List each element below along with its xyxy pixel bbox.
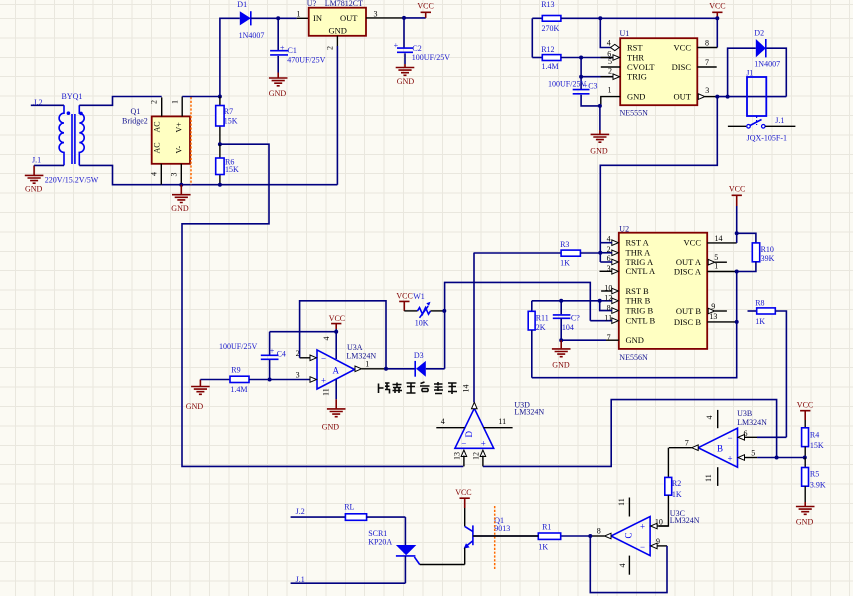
- ground (U1): [590, 106, 609, 156]
- svg-text:VCC: VCC: [729, 185, 745, 194]
- U3D pin 4: [436, 417, 464, 428]
- regulator pin 1: [297, 10, 301, 19]
- svg-text:R12: R12: [541, 45, 554, 54]
- svg-text:GND: GND: [796, 517, 814, 526]
- svg-text:VCC: VCC: [797, 401, 813, 410]
- net label J.1 (load return): [296, 575, 305, 584]
- svg-text:−: −: [728, 433, 733, 443]
- timer U1 NE555N: [620, 38, 697, 105]
- svg-text:LM324N: LM324N: [670, 516, 700, 525]
- svg-text:AC: AC: [153, 142, 162, 153]
- diode D1: [237, 0, 264, 40]
- op-amp U3A designator: [346, 343, 376, 361]
- U3A pin 11 / ground: [322, 380, 346, 432]
- svg-text:D3: D3: [414, 351, 424, 360]
- svg-text:OUT B: OUT B: [676, 306, 701, 316]
- svg-text:GND: GND: [329, 26, 347, 36]
- transistor Q1 designator: [494, 516, 510, 533]
- svg-text:6: 6: [607, 254, 611, 263]
- U3A pin 1 output: [355, 360, 386, 372]
- svg-text:+: +: [481, 439, 486, 449]
- junction W1 wiper net: [442, 309, 446, 313]
- junction R12 / THR: [579, 56, 583, 60]
- svg-text:RST B: RST B: [626, 286, 650, 296]
- svg-text:D2: D2: [754, 29, 764, 38]
- ground (R9): [186, 380, 210, 411]
- junction C1 top: [276, 16, 280, 20]
- wire DISC net down: [532, 272, 737, 378]
- power VCC (R4): [797, 401, 813, 420]
- svg-text:VCC: VCC: [417, 1, 433, 10]
- op-amp U3B designator: [737, 409, 767, 427]
- value label 220V/15.2V/5W: [45, 176, 99, 185]
- U2 pin 3 CNTL A: [600, 264, 619, 274]
- svg-text:5: 5: [751, 448, 755, 457]
- svg-text:C2: C2: [412, 44, 421, 53]
- svg-text:100UF/25V: 100UF/25V: [219, 342, 257, 351]
- U2 pin 13 DISC B: [707, 312, 737, 322]
- svg-text:V+: V+: [175, 122, 184, 133]
- svg-text:−: −: [640, 542, 645, 552]
- svg-text:TRIG: TRIG: [627, 71, 647, 81]
- junction R6 bottom: [218, 183, 222, 187]
- svg-text:4: 4: [607, 39, 611, 48]
- svg-text:VCC: VCC: [684, 238, 702, 248]
- svg-text:1: 1: [297, 10, 301, 19]
- value label 100UF/25V (C4): [219, 342, 257, 351]
- svg-text:11: 11: [498, 417, 506, 426]
- svg-text:14: 14: [461, 385, 470, 393]
- svg-text:R1: R1: [542, 523, 551, 532]
- svg-text:1K: 1K: [538, 543, 548, 552]
- svg-text:9013: 9013: [494, 524, 510, 533]
- U2 pin 6 TRIG A: [600, 254, 618, 265]
- U3B pin 11: [704, 467, 718, 486]
- U2 pin 9 OUT B: [708, 302, 727, 314]
- U3C pin 4: [618, 556, 630, 575]
- junction C7 bottom / GND: [559, 338, 563, 342]
- transformer BYQ1: [59, 105, 84, 165]
- junction U3A output node: [384, 367, 388, 371]
- U3D pin 12: [472, 450, 486, 466]
- svg-text:TRIG B: TRIG B: [626, 306, 654, 316]
- svg-text:VCC: VCC: [329, 314, 345, 323]
- svg-text:D1: D1: [237, 0, 247, 9]
- U2 pin 2 THR A: [600, 245, 618, 256]
- svg-text:LM324N: LM324N: [346, 351, 376, 360]
- svg-text:VCC: VCC: [396, 292, 412, 301]
- relay actuator dashed link: [756, 116, 758, 125]
- svg-text:GND: GND: [590, 147, 608, 156]
- resistor R7: [216, 97, 238, 145]
- U3C pin 10: [651, 518, 669, 529]
- svg-text:R3: R3: [560, 240, 569, 249]
- U1 pin 5 CVOLT: [601, 57, 620, 67]
- junction C7 top: [559, 299, 563, 303]
- svg-text:JQX-105F-1: JQX-105F-1: [747, 134, 787, 143]
- svg-text:+: +: [640, 522, 645, 532]
- svg-text:1K: 1K: [755, 317, 765, 326]
- op-amp U3C designator: [670, 509, 700, 525]
- junction U3C output: [588, 534, 592, 538]
- relay coil J1: [747, 77, 766, 116]
- svg-text:CVOLT: CVOLT: [627, 62, 655, 72]
- bridge rectifier Q1 Bridge2: [152, 116, 190, 163]
- junction C4 bottom / pin3: [268, 378, 272, 382]
- regulator pin 2 (GND): [326, 36, 338, 185]
- svg-text:C4: C4: [277, 350, 286, 359]
- svg-text:R7: R7: [224, 107, 233, 116]
- U2 pin 11 CNTL B: [590, 314, 618, 324]
- U2 pin 14 VCC: [707, 233, 737, 243]
- svg-text:3: 3: [705, 86, 709, 95]
- resistor R12: [532, 45, 613, 71]
- junction U1 gnd / C3: [598, 104, 602, 108]
- U3A pin 4 label: [322, 337, 331, 341]
- svg-text:4: 4: [618, 564, 627, 568]
- wire U3A feedback loop: [300, 301, 386, 369]
- resistor R13: [532, 0, 717, 33]
- svg-text:−: −: [321, 354, 326, 364]
- wire D2 branch: [728, 48, 787, 96]
- wire bridge V- to regulator gnd: [161, 184, 337, 186]
- svg-text:8: 8: [705, 39, 709, 48]
- ground (U2 / C7): [552, 340, 571, 369]
- svg-text:+: +: [394, 41, 399, 50]
- svg-text:+: +: [270, 346, 275, 355]
- diode D2: [754, 29, 780, 69]
- wire J.1 to SCR cathode: [291, 582, 406, 584]
- svg-text:4: 4: [705, 416, 714, 420]
- svg-text:DISC A: DISC A: [674, 266, 702, 276]
- U3C pin 9: [651, 537, 667, 549]
- U1 pin 3 OUT: [698, 86, 717, 99]
- svg-text:12: 12: [604, 293, 612, 302]
- U3C pin 8 output: [590, 526, 611, 538]
- wire RST drop: [600, 18, 611, 47]
- resistor R11: [528, 301, 549, 378]
- junction DISC A / R10: [735, 270, 739, 274]
- U3B pin 6: [738, 429, 786, 440]
- svg-text:VCC: VCC: [674, 42, 692, 52]
- svg-text:2: 2: [326, 46, 335, 50]
- bridge pin 2: [150, 97, 162, 116]
- annotation Chinese text: [379, 382, 458, 394]
- U3C pin 11: [617, 498, 630, 517]
- regulator U? designator: [307, 0, 363, 8]
- wire OUT to relay: [717, 96, 786, 98]
- svg-text:C1: C1: [288, 46, 297, 55]
- svg-text:OUT: OUT: [340, 13, 358, 23]
- capacitor C7: [553, 301, 580, 340]
- svg-text:470UF/25V: 470UF/25V: [287, 55, 325, 64]
- svg-text:GND: GND: [397, 77, 415, 86]
- svg-text:2K: 2K: [536, 323, 546, 332]
- svg-text:GND: GND: [627, 92, 645, 102]
- capacitor C4: [261, 332, 286, 380]
- svg-text:C?: C?: [571, 314, 580, 323]
- resistor RL: [291, 503, 406, 521]
- svg-text:U1: U1: [620, 29, 630, 38]
- wire SCR gate to Q1 emitter: [420, 564, 465, 566]
- selection marker (orange dashed) at Q1: [494, 506, 496, 570]
- wire to VCC: [404, 17, 426, 19]
- U1 pin 2 TRIG: [601, 66, 620, 79]
- svg-text:9: 9: [656, 537, 660, 546]
- svg-text:LM7812CT: LM7812CT: [325, 0, 363, 8]
- resistor R9: [200, 366, 310, 395]
- svg-text:R11: R11: [536, 314, 549, 323]
- svg-text:1: 1: [365, 360, 369, 369]
- wire W1/D3 to CNTL B: [445, 282, 591, 368]
- transformer BYQ1 designator: [62, 92, 83, 101]
- capacitor C2: [394, 18, 451, 64]
- svg-text:270K: 270K: [542, 24, 560, 33]
- U1 pin 4 RST: [607, 39, 619, 51]
- wire D1 anode vertical: [220, 18, 240, 96]
- resistor R6: [216, 144, 239, 185]
- svg-text:2: 2: [150, 100, 159, 104]
- junction DISC B: [735, 320, 739, 324]
- junction C2 top: [402, 16, 406, 20]
- svg-text:220V/15.2V/5W: 220V/15.2V/5W: [45, 176, 99, 185]
- ground (R5): [796, 502, 815, 526]
- net label J.2 (load): [296, 507, 305, 516]
- regulator U? LM7812CT: [309, 8, 366, 36]
- thyristor SCR1 KP20A: [396, 517, 420, 583]
- svg-text:U?: U?: [307, 0, 317, 8]
- U3B pin 4: [705, 410, 718, 428]
- U3B pin 7 output: [669, 438, 698, 450]
- selection marker (orange dashed) at bridge: [190, 97, 192, 185]
- svg-text:DISC: DISC: [672, 62, 692, 72]
- U2 pin 4 RST A: [600, 235, 618, 246]
- bridge pin 4: [150, 164, 162, 185]
- timer U2 designator: [619, 224, 648, 361]
- svg-text:3: 3: [374, 10, 378, 19]
- wire D1 cathode to regulator: [251, 17, 309, 19]
- svg-text:15K: 15K: [224, 117, 238, 126]
- svg-text:THR B: THR B: [626, 296, 651, 306]
- ground (transformer primary): [25, 165, 44, 193]
- svg-text:W1: W1: [413, 292, 425, 301]
- svg-text:RST: RST: [627, 42, 643, 52]
- svg-text:D: D: [464, 431, 474, 438]
- bridge pin 1: [171, 97, 183, 117]
- svg-text:A: A: [333, 365, 340, 375]
- svg-text:2: 2: [607, 245, 611, 254]
- svg-text:Bridge2: Bridge2: [122, 116, 148, 125]
- U3A pin 2: [296, 349, 317, 361]
- svg-text:12: 12: [472, 452, 481, 460]
- timer U1 designator: [620, 29, 649, 117]
- U2 pin 7 GND: [561, 333, 619, 342]
- junction pin3/ground: [179, 183, 183, 187]
- svg-text:11: 11: [617, 498, 626, 506]
- junction C4/VCC stem: [334, 330, 338, 334]
- wire C4 to VCC pin: [270, 331, 337, 333]
- ground (bridge V-): [171, 185, 190, 214]
- svg-text:10: 10: [655, 518, 663, 527]
- resistor R3: [474, 240, 601, 268]
- svg-text:OUT: OUT: [674, 92, 692, 102]
- transistor Q1 9013: [464, 508, 473, 565]
- svg-text:104: 104: [562, 323, 574, 332]
- junction VCC/R10: [735, 231, 739, 235]
- svg-text:IN: IN: [313, 13, 322, 23]
- svg-text:1: 1: [171, 100, 180, 104]
- svg-text:R10: R10: [761, 245, 774, 254]
- svg-text:GND: GND: [186, 402, 204, 411]
- junction VCC / pin8: [715, 16, 719, 20]
- wire R11/C7 top: [532, 300, 600, 302]
- wire bridge pin1 to D1/R7 node: [182, 96, 220, 98]
- wire secondary top to bridge pin 2: [79, 97, 161, 106]
- svg-text:1.4M: 1.4M: [230, 385, 247, 394]
- svg-text:14: 14: [715, 234, 723, 243]
- relay J1 designator: [746, 69, 753, 78]
- relay part number JQX-105F-1: [747, 134, 787, 143]
- U2 pin 1 DISC A: [707, 262, 737, 272]
- power VCC (regulator out): [417, 1, 433, 18]
- ground (C1): [269, 73, 288, 99]
- svg-text:LM324N: LM324N: [737, 418, 767, 427]
- svg-text:15K: 15K: [225, 165, 239, 174]
- relay contact J.1: [728, 116, 796, 128]
- svg-text:4: 4: [150, 172, 159, 176]
- svg-text:RST A: RST A: [626, 238, 650, 248]
- capacitor C1: [270, 18, 326, 72]
- junction D2 left: [726, 95, 730, 99]
- timer U2 NE556N: [619, 233, 707, 349]
- svg-text:7: 7: [685, 438, 689, 447]
- svg-text:J.1: J.1: [32, 156, 41, 165]
- svg-text:6: 6: [744, 429, 748, 438]
- resistor R5: [802, 458, 826, 503]
- svg-text:10K: 10K: [415, 318, 429, 327]
- svg-text:7: 7: [705, 58, 709, 67]
- svg-text:B: B: [717, 444, 723, 454]
- diode D3: [386, 351, 445, 377]
- svg-text:−: −: [461, 439, 466, 449]
- svg-text:R5: R5: [810, 469, 819, 478]
- svg-text:KP20A: KP20A: [368, 538, 392, 547]
- svg-text:4: 4: [322, 337, 331, 341]
- svg-text:3: 3: [170, 173, 179, 177]
- junction pin5 / U3D net: [775, 456, 779, 460]
- svg-text:C: C: [624, 532, 634, 538]
- U2 pin 5 OUT A: [708, 253, 727, 265]
- svg-text:13: 13: [453, 452, 462, 460]
- svg-text:11: 11: [322, 388, 331, 396]
- U2 pin 10 RST B: [601, 283, 618, 293]
- junction OUT node: [715, 95, 719, 99]
- svg-text:VCC: VCC: [455, 488, 471, 497]
- svg-text:J.2: J.2: [296, 507, 305, 516]
- bridge rectifier Q1 designator: [122, 107, 148, 125]
- svg-text:15K: 15K: [810, 441, 824, 450]
- wire primary top: [31, 104, 64, 106]
- svg-text:CNTL B: CNTL B: [626, 316, 656, 326]
- svg-text:11: 11: [704, 474, 713, 482]
- svg-text:3.9K: 3.9K: [810, 481, 826, 490]
- junction R4/R5/pin5: [803, 456, 807, 460]
- svg-text:8: 8: [597, 526, 601, 535]
- svg-text:J.1: J.1: [775, 116, 784, 125]
- wire U1 OUT to U2 THR A: [600, 97, 717, 262]
- svg-text:1.4M: 1.4M: [542, 62, 559, 71]
- svg-text:4: 4: [607, 235, 611, 244]
- svg-text:1K: 1K: [672, 490, 682, 499]
- U3D pin 13: [453, 450, 467, 466]
- thyristor SCR1 designator: [368, 529, 392, 547]
- ground (C2): [396, 64, 415, 86]
- svg-text:AC: AC: [153, 121, 162, 132]
- net label J.1 (primary bottom): [32, 156, 41, 165]
- svg-text:R8: R8: [755, 299, 764, 308]
- svg-text:NE556N: NE556N: [619, 353, 648, 362]
- svg-text:GND: GND: [269, 89, 287, 98]
- svg-text:1N4007: 1N4007: [239, 31, 265, 40]
- resistor R4: [802, 420, 824, 458]
- U1 pin 8 VCC: [697, 18, 717, 47]
- resistor R8: [748, 299, 787, 438]
- svg-text:9: 9: [711, 302, 715, 311]
- svg-text:100UF/25V: 100UF/25V: [548, 79, 586, 88]
- svg-text:1N4007: 1N4007: [754, 59, 780, 68]
- svg-text:R9: R9: [231, 366, 240, 375]
- junction R7 top: [218, 95, 222, 99]
- capacitor C3: [548, 77, 600, 106]
- svg-text:VCC: VCC: [709, 1, 725, 10]
- svg-text:39K: 39K: [761, 254, 775, 263]
- svg-text:U3B: U3B: [737, 409, 752, 418]
- power VCC (U2): [729, 185, 745, 234]
- svg-text:1K: 1K: [560, 259, 570, 268]
- op-amp U3A: [317, 350, 355, 389]
- svg-text:GND: GND: [552, 360, 570, 369]
- U3A pin 3: [296, 370, 317, 382]
- svg-text:+: +: [728, 453, 733, 463]
- svg-text:THR: THR: [627, 52, 644, 62]
- svg-text:GND: GND: [626, 335, 644, 345]
- svg-text:100UF/25V: 100UF/25V: [412, 53, 450, 62]
- bridge pin 3: [170, 164, 182, 185]
- wire R13-R12 left: [531, 18, 533, 57]
- op-amp U3C: [611, 517, 650, 556]
- svg-text:R13: R13: [541, 0, 554, 9]
- svg-text:DISC B: DISC B: [674, 317, 701, 327]
- U1 pin 1 GND: [601, 86, 620, 106]
- U2 pin 12 THR B: [600, 293, 619, 303]
- U3B pin 5: [738, 448, 805, 460]
- wire divider tap to U3D pin13 net: [182, 144, 463, 466]
- junction R13 / RST net: [598, 16, 602, 20]
- svg-text:GND: GND: [322, 423, 340, 432]
- svg-text:3: 3: [296, 370, 300, 379]
- resistor R2: [659, 448, 682, 526]
- svg-text:GND: GND: [25, 185, 43, 194]
- wire primary bottom: [34, 164, 64, 166]
- svg-text:Q1: Q1: [131, 107, 141, 116]
- svg-text:CNTL A: CNTL A: [626, 266, 657, 276]
- svg-text:BYQ1: BYQ1: [62, 92, 83, 101]
- U3D pin 11: [484, 417, 513, 428]
- power VCC (U1 top): [709, 1, 725, 18]
- svg-text:2: 2: [608, 66, 612, 75]
- junction R7/R6 divider: [218, 142, 222, 146]
- junction TRIG / C3: [579, 75, 583, 79]
